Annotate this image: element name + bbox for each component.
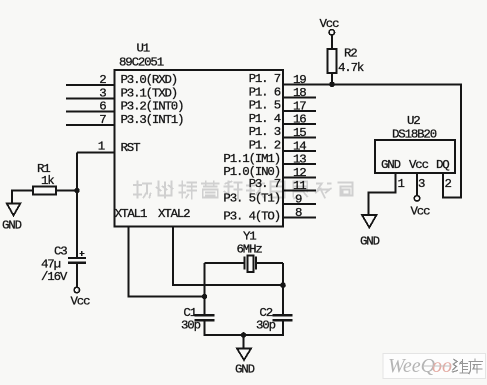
svg-text:U1: U1	[137, 42, 150, 56]
svg-text:Vcc: Vcc	[320, 17, 340, 31]
svg-text:R2: R2	[344, 47, 357, 61]
svg-text:P1. 5: P1. 5	[249, 99, 281, 113]
svg-text:XTAL1: XTAL1	[115, 207, 147, 221]
svg-text:16: 16	[293, 113, 306, 127]
svg-text:RST: RST	[121, 141, 141, 155]
svg-text:1: 1	[398, 177, 405, 191]
svg-text:Vcc: Vcc	[409, 158, 429, 172]
svg-text:30p: 30p	[181, 319, 201, 333]
svg-text:3: 3	[418, 177, 425, 191]
svg-text:P3.0(RXD): P3.0(RXD)	[121, 73, 178, 87]
svg-text:GND: GND	[381, 158, 401, 172]
svg-text:30p: 30p	[256, 319, 276, 333]
svg-text:Vcc: Vcc	[71, 295, 91, 309]
svg-text:Y1: Y1	[243, 230, 256, 244]
svg-text:15: 15	[293, 126, 306, 140]
svg-text:11: 11	[293, 179, 306, 193]
svg-text:/16V: /16V	[41, 270, 68, 284]
svg-text:7: 7	[99, 113, 106, 127]
svg-text:P3. 7: P3. 7	[249, 177, 281, 191]
svg-text:P1. 7: P1. 7	[249, 72, 281, 86]
svg-text:P1.1(IM1): P1.1(IM1)	[223, 152, 280, 166]
svg-text:P3.3(INT1): P3.3(INT1)	[121, 113, 184, 127]
svg-text:18: 18	[293, 86, 306, 100]
svg-text:17: 17	[293, 99, 306, 113]
svg-text:1k: 1k	[41, 174, 54, 188]
svg-text:XTAL2: XTAL2	[158, 207, 190, 221]
svg-text:GND: GND	[235, 363, 255, 377]
svg-text:P3. 5(T1): P3. 5(T1)	[223, 192, 280, 206]
svg-text:9: 9	[295, 193, 302, 207]
svg-text:U2: U2	[407, 114, 420, 128]
svg-text:19: 19	[293, 73, 306, 87]
svg-text:DS18B20: DS18B20	[392, 128, 437, 142]
svg-text:4.7k: 4.7k	[338, 61, 364, 75]
svg-text:P1. 4: P1. 4	[249, 112, 281, 126]
svg-text:GND: GND	[360, 235, 380, 249]
svg-text:14: 14	[293, 139, 306, 153]
svg-text:13: 13	[293, 153, 306, 167]
svg-text:P1. 2: P1. 2	[249, 139, 281, 153]
svg-text:6: 6	[99, 100, 106, 114]
svg-text:6MHz: 6MHz	[237, 243, 263, 257]
svg-text:P3. 4(TO): P3. 4(TO)	[223, 210, 280, 224]
svg-text:2: 2	[99, 73, 106, 87]
svg-text:Vcc: Vcc	[411, 205, 431, 219]
svg-text:GND: GND	[2, 219, 22, 233]
svg-text:3: 3	[99, 86, 106, 100]
svg-text:DQ: DQ	[436, 158, 449, 172]
svg-text:C3: C3	[54, 245, 67, 259]
svg-text:1: 1	[98, 140, 105, 154]
svg-text:8: 8	[295, 206, 302, 220]
svg-text:P1. 6: P1. 6	[249, 85, 281, 99]
svg-text:P3.1(TXD): P3.1(TXD)	[121, 86, 178, 100]
svg-text:P1. 3: P1. 3	[249, 125, 281, 139]
svg-text:P3.2(INT0): P3.2(INT0)	[121, 100, 184, 114]
svg-text:2: 2	[445, 177, 452, 191]
svg-text:89C2051: 89C2051	[119, 56, 164, 70]
svg-text:12: 12	[293, 166, 306, 180]
